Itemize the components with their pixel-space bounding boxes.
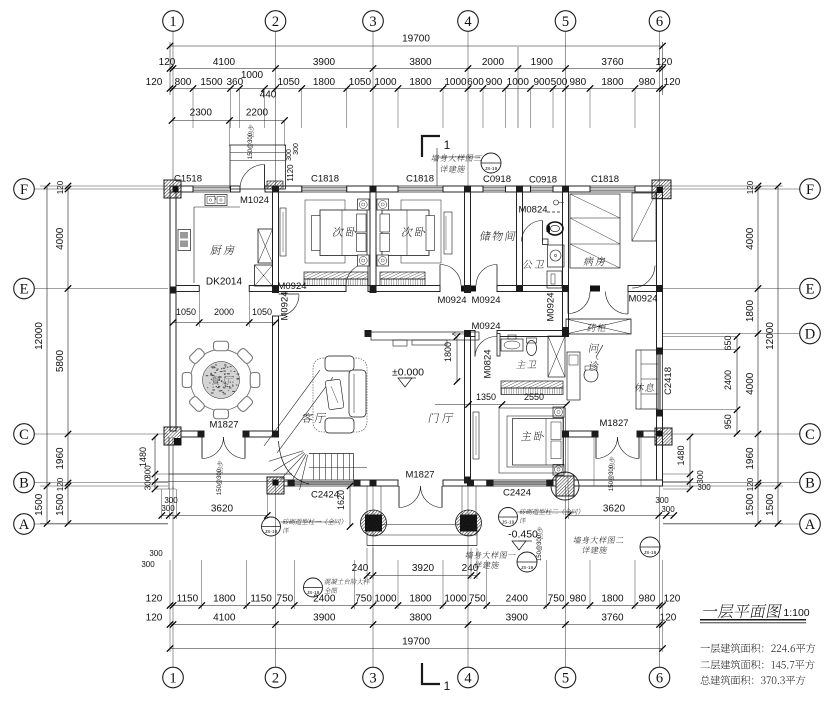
- window C1818c top wall: [590, 186, 635, 192]
- kitchen tall cabinets: [258, 229, 273, 263]
- svg-text:2000: 2000: [482, 57, 505, 68]
- svg-text:120: 120: [159, 57, 176, 68]
- wall hall east (master west): [465, 331, 471, 481]
- wall master-bath west partition: [497, 334, 500, 357]
- label 主卧: [521, 431, 532, 440]
- dim row top 19700: [170, 45, 663, 47]
- dim col left 12000/1500: [46, 186, 48, 524]
- svg-text:750: 750: [469, 594, 486, 605]
- svg-text:4000: 4000: [55, 227, 66, 250]
- bedroom1 bed furniture: [305, 200, 345, 263]
- dim col right 650/2400/950: [736, 337, 738, 434]
- svg-text:1050: 1050: [176, 307, 196, 317]
- door M0824 public-wc: [542, 221, 544, 242]
- svg-text:M1827: M1827: [599, 418, 628, 429]
- svg-text:1500: 1500: [765, 493, 776, 516]
- label 客厅: [301, 413, 313, 423]
- svg-text:3800: 3800: [409, 57, 432, 68]
- svg-text:3620: 3620: [211, 504, 234, 515]
- svg-text:1150: 1150: [250, 594, 272, 605]
- svg-text:2: 2: [272, 14, 279, 30]
- rest sofa 休息: [636, 350, 658, 409]
- label 厨房: [210, 245, 222, 255]
- svg-text:M0924: M0924: [277, 281, 306, 292]
- master bed furniture: [499, 408, 566, 473]
- door M0924 wardroom-c: [632, 266, 655, 289]
- annotation 墙身大样图二: [573, 536, 582, 543]
- svg-text:120: 120: [656, 57, 673, 68]
- svg-text:1000: 1000: [374, 594, 397, 605]
- master bath fixtures: [501, 339, 523, 351]
- svg-text:4100: 4100: [213, 57, 236, 68]
- dim col right 12000/1500: [777, 186, 779, 524]
- svg-text:3: 3: [369, 14, 376, 30]
- label 次卧 a: [332, 227, 344, 237]
- svg-text:D: D: [805, 327, 815, 343]
- svg-text:1050: 1050: [349, 77, 372, 88]
- column F1 corner: [164, 180, 181, 198]
- hall reception cabinet: [371, 332, 479, 340]
- svg-text:120: 120: [746, 477, 755, 491]
- svg-text:1800: 1800: [213, 594, 236, 605]
- svg-text:C2418: C2418: [663, 367, 674, 395]
- svg-text:C1818: C1818: [591, 174, 619, 185]
- window C2418 right wall: [657, 351, 663, 413]
- svg-text:1: 1: [444, 138, 451, 152]
- dim row bottom detail: [170, 605, 663, 607]
- porch top with steps: [230, 145, 286, 189]
- svg-text:JS-19: JS-19: [265, 529, 278, 535]
- svg-text:300: 300: [286, 149, 293, 161]
- svg-text:1620: 1620: [336, 490, 346, 510]
- svg-text:1500: 1500: [34, 493, 45, 516]
- window C0918a top wall: [483, 186, 506, 192]
- svg-text:300: 300: [696, 470, 705, 484]
- svg-text:6: 6: [656, 671, 663, 687]
- door M0924 storage: [496, 265, 498, 286]
- svg-text:M0924: M0924: [471, 321, 500, 332]
- master wardrobe hatch: [501, 381, 563, 388]
- annotation 台阶大样: [304, 578, 323, 597]
- svg-text:6: 6: [656, 14, 663, 30]
- svg-text:980: 980: [639, 594, 656, 605]
- svg-text:300: 300: [661, 505, 675, 514]
- dim row bottom segments: [170, 624, 663, 626]
- svg-text:M0824: M0824: [518, 205, 547, 216]
- svg-text:1350: 1350: [476, 392, 496, 402]
- column C6 corner: [655, 428, 672, 445]
- title 一层平面图: [703, 609, 718, 611]
- svg-text:1800: 1800: [409, 77, 432, 88]
- svg-text:4000: 4000: [745, 227, 756, 250]
- svg-text:1050: 1050: [277, 77, 300, 88]
- door M0924 bedroom2: [439, 265, 441, 286]
- svg-text:E: E: [20, 282, 29, 298]
- svg-text:5800: 5800: [55, 349, 66, 372]
- svg-text:F: F: [806, 182, 814, 198]
- svg-text:C2424: C2424: [311, 490, 339, 501]
- section mark 1 bottom: [421, 663, 423, 685]
- svg-text:4000: 4000: [745, 372, 756, 395]
- svg-text:1800: 1800: [443, 342, 453, 362]
- svg-text:2400: 2400: [506, 594, 529, 605]
- svg-text:1050: 1050: [252, 307, 272, 317]
- svg-text:3620: 3620: [603, 504, 626, 515]
- medicine cabinet 药柜: [566, 319, 631, 334]
- svg-text:1000: 1000: [241, 70, 264, 81]
- dim col left terrace 1480/300/300: [154, 437, 156, 489]
- wall grid 5 (pubwc/wardroom): [563, 192, 569, 286]
- porch columns: [365, 515, 382, 532]
- svg-text:1480: 1480: [138, 447, 148, 467]
- svg-text:900: 900: [533, 77, 550, 88]
- svg-text:3920: 3920: [412, 563, 435, 574]
- wall grid C left (dining south): [181, 431, 201, 437]
- svg-text:12000: 12000: [34, 322, 45, 350]
- dim row right terrace 3620: [568, 515, 674, 517]
- wall right exterior (grid 6): [657, 192, 663, 351]
- svg-text:1500: 1500: [200, 77, 223, 88]
- door M0924 kitchen-back: [279, 293, 300, 295]
- svg-text:JS-19: JS-19: [502, 519, 515, 525]
- svg-text:3900: 3900: [506, 613, 529, 624]
- dim row porch 240/3920/240: [367, 575, 477, 577]
- column F6 corner: [652, 180, 671, 199]
- dim row top segments 4100/3900/3800/2000/1900/3760: [170, 68, 663, 70]
- wall grid E interior: [176, 286, 199, 292]
- svg-text:3900: 3900: [313, 613, 336, 624]
- window C2424 left: [294, 482, 354, 485]
- svg-text:1:100: 1:100: [783, 607, 809, 619]
- column C1 corner: [164, 427, 181, 445]
- svg-text:M1827: M1827: [209, 420, 238, 431]
- ext lines right terrace: [567, 437, 569, 490]
- svg-text:19700: 19700: [402, 34, 430, 45]
- door M0924 wardroom-b: [627, 292, 629, 315]
- svg-text:DK2014: DK2014: [206, 277, 243, 288]
- svg-text:1: 1: [169, 671, 176, 687]
- dim row kitchen 1050/2000/1050: [173, 322, 276, 324]
- wall top exterior (grid F): [170, 186, 193, 192]
- door M1827 hall-south: [398, 486, 400, 508]
- svg-text:C0918: C0918: [483, 174, 511, 185]
- svg-text:120: 120: [56, 477, 65, 491]
- svg-text:4: 4: [464, 671, 472, 687]
- svg-text:2400: 2400: [723, 370, 733, 390]
- dim 1620: [349, 486, 351, 527]
- wall grid B exterior: [284, 480, 294, 486]
- svg-text:300: 300: [149, 549, 163, 558]
- label 病房: [583, 257, 594, 266]
- svg-text:M0824: M0824: [483, 349, 494, 378]
- svg-text:1900: 1900: [531, 57, 554, 68]
- wall left exterior (grid 1): [170, 192, 176, 431]
- svg-text:1150: 1150: [177, 594, 199, 605]
- public wc fixtures: [547, 222, 563, 235]
- svg-text:120: 120: [56, 180, 65, 194]
- door M1827 consult-terrace: [595, 437, 597, 459]
- porch steps: [366, 486, 368, 516]
- column B2 corner: [267, 477, 284, 494]
- dim col left segments: [67, 186, 69, 524]
- svg-text:2300: 2300: [190, 108, 213, 119]
- annotation 墙身大样图三: [431, 154, 440, 161]
- svg-text:F: F: [20, 182, 28, 198]
- door M0924 wardroom-a: [567, 292, 569, 314]
- door M0824 master-bath: [474, 337, 476, 357]
- window C1818b top wall: [398, 186, 443, 192]
- svg-text:19700: 19700: [402, 637, 430, 648]
- window C1818a top wall: [302, 186, 347, 192]
- wardroom beds: [570, 194, 620, 268]
- label 储物间: [479, 231, 491, 241]
- svg-text:120: 120: [146, 594, 163, 605]
- svg-text:C0918: C0918: [529, 175, 557, 186]
- svg-text:1480: 1480: [676, 445, 686, 465]
- svg-text:M0924: M0924: [471, 295, 500, 306]
- svg-text:M1024: M1024: [240, 195, 269, 206]
- svg-text:2200: 2200: [246, 108, 269, 119]
- svg-text:800: 800: [175, 77, 192, 88]
- svg-text:1000: 1000: [374, 77, 397, 88]
- svg-text:1: 1: [169, 14, 176, 30]
- svg-text:5: 5: [562, 671, 569, 687]
- kitchen sink and stove: [205, 195, 227, 206]
- svg-text:120: 120: [664, 77, 681, 88]
- svg-text:M0924: M0924: [280, 291, 291, 320]
- svg-text:300: 300: [144, 476, 153, 490]
- svg-text:750: 750: [548, 594, 565, 605]
- svg-text:C: C: [805, 427, 815, 443]
- svg-text:120: 120: [146, 77, 163, 88]
- svg-text:-0.450: -0.450: [508, 529, 538, 541]
- svg-text:1800: 1800: [601, 594, 624, 605]
- svg-text:1960: 1960: [745, 447, 756, 470]
- svg-text:A: A: [19, 517, 30, 533]
- spiral stair: [279, 441, 310, 484]
- living room sofa set: [313, 358, 367, 432]
- label 药柜: [587, 324, 597, 332]
- window C1518 top wall: [193, 186, 231, 192]
- svg-text:1500: 1500: [745, 493, 756, 516]
- svg-text:120: 120: [146, 613, 163, 624]
- window C2424 right: [487, 482, 547, 485]
- dim col right segments: [757, 186, 759, 524]
- dim row top detail: [170, 88, 663, 90]
- dining round table with chairs: [191, 350, 252, 411]
- svg-text:1120: 1120: [286, 164, 295, 182]
- label 门厅: [429, 413, 440, 423]
- svg-text:C: C: [19, 427, 29, 443]
- svg-text:4: 4: [464, 14, 472, 30]
- svg-text:500: 500: [551, 77, 568, 88]
- svg-text:120: 120: [746, 180, 755, 194]
- annotation 造型柱二: [499, 508, 518, 527]
- svg-text:2000: 2000: [214, 307, 234, 317]
- svg-text:980: 980: [569, 594, 586, 605]
- label 问诊 vertical: [589, 343, 599, 353]
- svg-text:A: A: [805, 517, 816, 533]
- svg-text:750: 750: [277, 594, 294, 605]
- svg-text:4100: 4100: [213, 613, 236, 624]
- svg-text:E: E: [806, 282, 815, 298]
- svg-text:5: 5: [562, 14, 569, 30]
- svg-text:900: 900: [486, 77, 503, 88]
- terrace left boundary: [168, 437, 170, 489]
- svg-text:1800: 1800: [745, 299, 756, 322]
- svg-text:1800: 1800: [409, 594, 432, 605]
- svg-text:1800: 1800: [601, 77, 624, 88]
- svg-text:980: 980: [569, 77, 586, 88]
- dim row master 1350/2550: [435, 404, 567, 406]
- svg-text:1960: 1960: [55, 447, 66, 470]
- svg-text:1000: 1000: [507, 77, 530, 88]
- door M1024 kitchen: [264, 165, 266, 190]
- svg-text:2: 2: [272, 671, 279, 687]
- svg-text:300: 300: [293, 143, 300, 155]
- svg-text:B: B: [19, 476, 29, 492]
- svg-text:C1818: C1818: [311, 174, 339, 185]
- label 主卫: [516, 360, 526, 368]
- svg-text:3: 3: [369, 671, 376, 687]
- svg-text:JS-19: JS-19: [644, 550, 657, 556]
- wall pubwc partition: [543, 239, 549, 245]
- svg-text:JS-19: JS-19: [485, 166, 498, 172]
- dim row left terrace 3620: [162, 515, 268, 517]
- wall grid D (master-bath north): [471, 331, 476, 337]
- area text lines: [701, 647, 710, 648]
- svg-text:JS-19: JS-19: [307, 590, 320, 596]
- svg-text:600: 600: [467, 77, 484, 88]
- svg-text:C1818: C1818: [406, 174, 434, 185]
- window C0918b top wall: [531, 186, 554, 192]
- dim row 2300 2200: [172, 120, 285, 122]
- annotation 造型柱一: [262, 517, 281, 536]
- svg-text:M1827: M1827: [405, 470, 434, 481]
- svg-text:C2424: C2424: [503, 488, 531, 499]
- svg-text:2550: 2550: [524, 392, 544, 402]
- svg-text:M0924: M0924: [546, 292, 557, 321]
- svg-text:1500: 1500: [55, 493, 66, 516]
- svg-text:120: 120: [664, 594, 681, 605]
- grid axis circles left: [14, 179, 35, 200]
- label 餐厅: [210, 376, 221, 385]
- wall bedroom2/storage east: [465, 192, 471, 286]
- bedroom1 wardrobe hatch: [304, 272, 368, 279]
- wall storage/pubwc: [517, 192, 523, 286]
- svg-text:240: 240: [462, 563, 479, 574]
- label 公卫: [522, 260, 533, 269]
- svg-text:M0924: M0924: [628, 294, 657, 305]
- dim row bottom 19700: [170, 648, 663, 650]
- svg-text:950: 950: [723, 414, 733, 429]
- label 次卧 b: [401, 227, 413, 237]
- svg-text:3900: 3900: [313, 57, 336, 68]
- dim col right 1480/300: [689, 437, 691, 489]
- svg-text:12000: 12000: [765, 322, 776, 350]
- svg-text:650: 650: [723, 335, 733, 350]
- svg-text:300: 300: [655, 496, 669, 505]
- wall grid 3 (between bedrooms): [370, 192, 376, 286]
- section mark 1 top: [421, 135, 423, 157]
- svg-text:1: 1: [444, 679, 451, 693]
- bedroom2 wardrobe hatch: [380, 272, 425, 279]
- svg-text:C1518: C1518: [174, 174, 202, 185]
- label 休息: [634, 383, 645, 392]
- door M0924 bedroom1: [367, 264, 369, 286]
- dim 1800 hall: [456, 337, 458, 382]
- svg-text:1000: 1000: [444, 594, 467, 605]
- svg-text:1800: 1800: [313, 77, 336, 88]
- door M1827 dining-terrace: [201, 437, 203, 459]
- svg-text:750: 750: [355, 594, 372, 605]
- svg-text:3760: 3760: [601, 613, 624, 624]
- consult desk chair: [567, 352, 580, 400]
- annotation 墙身大样图一: [465, 551, 474, 558]
- svg-text:300: 300: [161, 504, 175, 513]
- door dashes public-wc: [547, 211, 562, 213]
- svg-text:1000: 1000: [444, 77, 467, 88]
- wall grid 2 (kitchen/dining east): [273, 192, 279, 286]
- grid axis circles bottom 1-6: [163, 667, 184, 688]
- svg-text:3800: 3800: [409, 613, 432, 624]
- svg-text:120: 120: [660, 613, 677, 624]
- svg-text:B: B: [805, 476, 815, 492]
- grid axis circles top 1-6: [163, 11, 184, 32]
- wall grid C right (consult south): [569, 431, 596, 437]
- svg-text:440: 440: [260, 90, 277, 101]
- svg-text:300: 300: [141, 560, 155, 569]
- grid axis circles right: [800, 179, 821, 200]
- svg-text:300: 300: [144, 465, 153, 479]
- svg-text:M0924: M0924: [437, 295, 466, 306]
- svg-text:JS-19: JS-19: [521, 565, 534, 571]
- bedroom2 bed furniture: [401, 200, 441, 263]
- svg-text:3760: 3760: [601, 57, 624, 68]
- svg-text:300: 300: [697, 483, 711, 492]
- column B5 circled: [556, 476, 574, 496]
- svg-text:±0.000: ±0.000: [392, 367, 424, 379]
- svg-text:980: 980: [639, 77, 656, 88]
- columns small: [272, 186, 279, 193]
